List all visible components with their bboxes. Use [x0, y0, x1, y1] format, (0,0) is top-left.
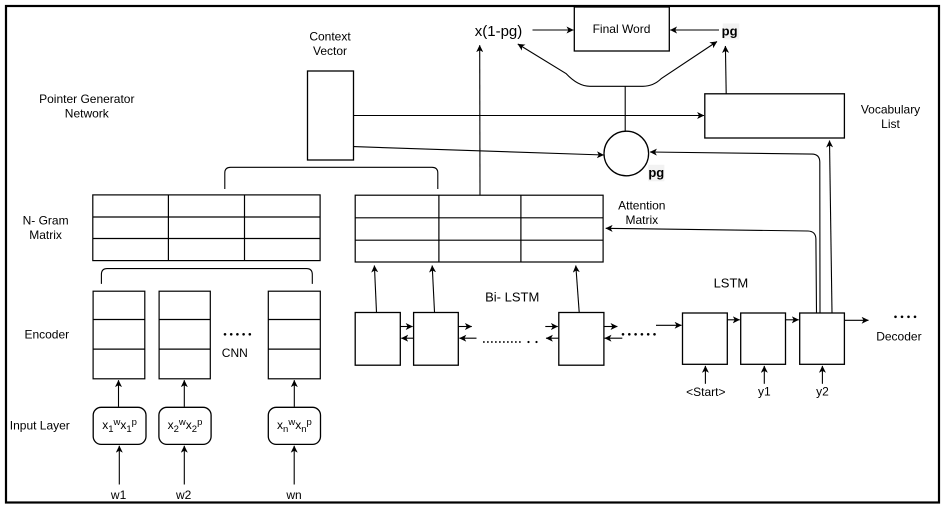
label N- Gram Matrix — [23, 214, 69, 243]
encoder column 3 — [268, 291, 320, 379]
svg-text:N- Gram: N- Gram — [23, 214, 69, 228]
input box 2 — [159, 407, 211, 444]
svg-text:Vocabulary: Vocabulary — [861, 102, 920, 116]
label Context Vector — [309, 30, 351, 59]
label pg circle — [648, 165, 664, 182]
funnel merge shape with arrows to x(1-pg) and pg — [518, 42, 717, 87]
svg-text:pg: pg — [722, 24, 738, 39]
svg-text:Matrix: Matrix — [29, 228, 62, 242]
svg-text:<Start>: <Start> — [686, 385, 725, 399]
arrow y2 to decoder3 — [821, 366, 823, 384]
circle pg node — [604, 131, 649, 176]
decoder box 3 — [800, 313, 845, 364]
arrow wn to input3 — [293, 446, 295, 485]
bracket encoder to n-gram matrix — [101, 269, 312, 284]
matrix attention right — [355, 195, 603, 262]
arrow bilstm2 out forward — [458, 326, 472, 328]
svg-text:Attention: Attention — [618, 199, 665, 213]
box context vector — [308, 71, 354, 160]
arrow bilstm1 to bilstm2 forward — [400, 326, 412, 328]
svg-text:y2: y2 — [816, 385, 829, 399]
arrow context vector to pg circle — [354, 147, 604, 155]
svg-text:Decoder: Decoder — [876, 330, 921, 344]
label Pointer Generator Network — [39, 92, 134, 121]
svg-text:Context: Context — [309, 30, 351, 44]
box Vocabulary List — [705, 94, 845, 138]
dotted wire between bilstm2 and bilstm3 — [483, 341, 521, 343]
svg-text:Input Layer: Input Layer — [10, 419, 70, 433]
arrow input1 to encoder1 — [118, 380, 120, 407]
input box 3 — [268, 407, 320, 444]
svg-text:Encoder: Encoder — [24, 328, 69, 342]
decoder box 1 — [683, 313, 728, 364]
arrow pg to Final Word — [670, 29, 719, 31]
arrow input2 to encoder2 — [183, 380, 185, 407]
arrow into decoder1 — [656, 324, 682, 326]
svg-text:Matrix: Matrix — [625, 213, 658, 227]
svg-text:CNN: CNN — [222, 346, 248, 360]
arrow bilstm2 to bilstm1 backward — [401, 337, 413, 339]
wire decoder3 to attention matrix — [606, 228, 817, 312]
svg-text:wn: wn — [285, 488, 301, 502]
svg-text:x(1-pg): x(1-pg) — [475, 23, 523, 40]
svg-text:List: List — [881, 117, 900, 131]
decoder box 2 — [741, 313, 786, 364]
arrow attention matrix to x(1-pg) — [479, 45, 481, 195]
bilstm box 3 — [559, 313, 604, 366]
svg-text:w1: w1 — [110, 488, 127, 502]
bilstm box 2 — [414, 313, 459, 366]
wire decoder3 to pg circle — [650, 152, 820, 313]
dots between bilstm3 and decoder — [622, 333, 656, 336]
arrow Start to decoder1 — [704, 366, 706, 384]
arrow input3 to encoder3 — [293, 380, 295, 407]
encoder column 1 — [93, 291, 145, 379]
arrow w1 to input1 — [118, 446, 120, 485]
arrow into bilstm3 backward right — [605, 337, 623, 339]
encoder column 2 — [159, 291, 210, 379]
bracket matrices to context vector — [225, 167, 438, 189]
svg-text:y1: y1 — [758, 385, 771, 399]
svg-text:Vector: Vector — [313, 44, 347, 58]
svg-text:pg: pg — [648, 165, 664, 180]
arrow decoder2 to decoder3 — [786, 319, 799, 321]
dots between encoder columns — [224, 333, 251, 336]
wire decoder3 to vocabulary — [830, 141, 833, 313]
arrow bilstm2 to matrix — [432, 266, 434, 313]
arrow decoder3 out — [844, 319, 868, 321]
arrow context vector to vocabulary — [354, 115, 705, 117]
label pg top — [723, 24, 740, 40]
svg-text:Network: Network — [65, 107, 110, 121]
bilstm box 1 — [355, 313, 400, 366]
arrow y1 to decoder2 — [763, 366, 765, 384]
box Final Word — [574, 7, 669, 51]
label Vocabulary List — [861, 102, 920, 131]
svg-text:Bi- LSTM: Bi- LSTM — [485, 290, 539, 305]
arrow bilstm3 out forward right — [604, 326, 618, 328]
arrow vocabulary to pg — [724, 46, 727, 94]
arrow x(1-pg) to Final Word — [533, 29, 574, 31]
arrow into bilstm2 backward — [459, 337, 476, 339]
matrix n-gram left — [93, 195, 320, 261]
arrow decoder1 to decoder2 — [727, 319, 739, 321]
arrow bilstm3 out backward — [546, 337, 559, 339]
arrow w2 to input2 — [183, 446, 185, 485]
svg-text:LSTM: LSTM — [714, 276, 749, 291]
arrow bilstm3 to matrix — [576, 266, 579, 313]
arrow bilstm1 to matrix — [374, 266, 376, 313]
wire funnel to circle — [624, 87, 626, 132]
input box 1 — [93, 407, 146, 444]
label Attention Matrix — [618, 199, 665, 228]
svg-text:Final Word: Final Word — [593, 22, 651, 36]
svg-text:Pointer Generator: Pointer Generator — [39, 92, 134, 106]
svg-text:w2: w2 — [175, 488, 192, 502]
arrow into bilstm3 forward — [545, 326, 558, 328]
dots after decoder3 — [894, 316, 916, 319]
